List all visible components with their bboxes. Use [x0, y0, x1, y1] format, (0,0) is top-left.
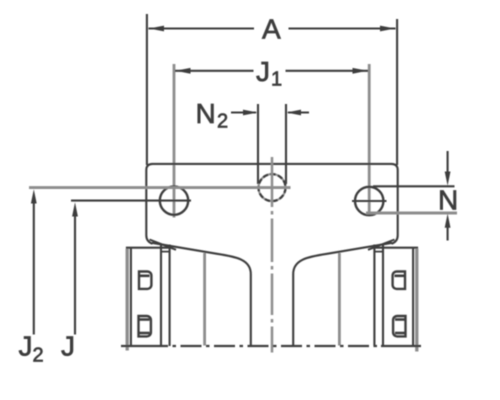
left flange outer edge (grey): [126, 249, 129, 351]
svg-text:A: A: [262, 14, 281, 45]
housing base plate outline (rounded, no bottom edge): [146, 164, 397, 244]
dimension N vertical line top with arrow: [447, 151, 449, 176]
dimension J1 arrowhead right: [353, 68, 368, 74]
black leader line for J (through left hole): [71, 200, 191, 202]
left flange outer edge (black): [130, 247, 132, 346]
dimension A extension line right: [396, 19, 398, 165]
left flange recess 1 (D shape): [139, 271, 151, 288]
left flange notch tick: [162, 251, 170, 253]
svg-text:J: J: [61, 331, 75, 362]
svg-text:N: N: [438, 185, 458, 216]
bolt hole left: [160, 186, 188, 214]
dimension N2 extension line left: [257, 104, 259, 184]
right flange recess 2 (D shape mirrored): [393, 316, 405, 336]
plate bottom edge right (short slant): [368, 240, 395, 250]
svg-text:J: J: [256, 56, 270, 87]
dimension A arrowhead right: [380, 26, 395, 32]
dimension A extension line left: [146, 14, 148, 165]
centre hole (dashed): [259, 174, 286, 201]
cap outline left (curved): [152, 243, 251, 346]
grey leader line for J2 (through centre hole): [29, 186, 291, 189]
svg-text:2: 2: [217, 111, 228, 133]
left flange recess 2 (D shape): [139, 316, 151, 336]
cap outline right (curved): [293, 243, 392, 346]
dimension J1 extension line left (grey): [173, 64, 176, 218]
left flange top edge: [126, 247, 170, 249]
dimension A line right segment: [289, 27, 396, 29]
right flange top edge: [374, 247, 418, 249]
left flange inner edge 2: [169, 245, 171, 347]
dimension J1 line left segment: [175, 70, 254, 72]
vertical centreline (chain): [271, 157, 274, 353]
plate bottom edge left (short slant): [150, 240, 177, 250]
dimension N2 extension line right: [285, 104, 287, 184]
cap rib right (grey): [338, 253, 341, 346]
J2 arrow (vertical, pointing up at grey leader): [33, 198, 35, 335]
dimension N vertical line bottom with arrow: [447, 224, 449, 241]
right hole horizontal centreline: [352, 200, 387, 202]
bolt hole right: [355, 187, 383, 215]
dimension N top line (black): [373, 185, 455, 187]
cap rib left (grey): [203, 253, 206, 346]
dimension J1 extension line right (grey): [368, 64, 371, 216]
right flange notch tick: [375, 251, 383, 253]
svg-text:2: 2: [33, 345, 44, 367]
right flange recess 1 (D shape mirrored): [393, 271, 405, 288]
shaft axis line (chain, bottom): [121, 345, 421, 347]
dimension J1 line right segment: [286, 70, 369, 72]
right flange inner edge 1: [373, 245, 375, 347]
dimension A line left segment: [149, 27, 255, 29]
right flange outer edge (grey): [415, 249, 418, 352]
dimension J1 arrowhead left: [176, 68, 191, 74]
dimension A arrowhead left: [149, 26, 164, 32]
right flange inner edge 2: [382, 245, 384, 347]
svg-text:1: 1: [271, 69, 282, 91]
svg-text:J: J: [19, 331, 33, 362]
right flange outer edge (black): [412, 247, 414, 346]
svg-text:N: N: [196, 98, 216, 129]
dimension N2 leader left with arrow: [231, 111, 256, 113]
left flange inner edge 1: [160, 245, 162, 347]
J arrow (vertical, pointing up at black leader): [74, 211, 76, 335]
dimension N2 leader right with arrow: [288, 111, 309, 113]
dimension N bottom line (grey): [366, 212, 457, 215]
